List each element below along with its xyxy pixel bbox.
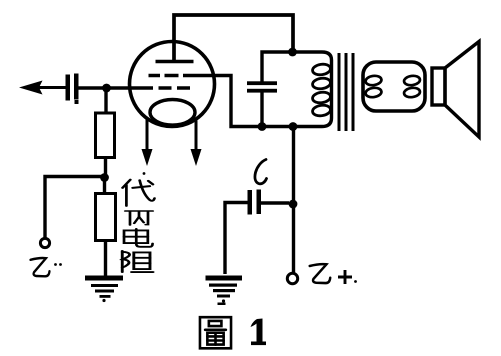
capacitor C3: [225, 190, 289, 275]
label 阻: [122, 251, 153, 272]
input arrow: [19, 81, 66, 95]
wire R1 to bias node: [104, 158, 107, 175]
triode V1 envelope: [130, 42, 215, 127]
resistor R1: [96, 113, 115, 158]
wire B+ vertical: [292, 127, 295, 274]
transformer secondary voice coil: [363, 62, 425, 111]
caption 圖: [200, 317, 231, 348]
caption 1: [251, 319, 267, 346]
ground (C3): [206, 276, 243, 303]
node primary bottom junction: [289, 122, 298, 131]
ground (R2): [85, 276, 123, 303]
wire R2 to ground: [104, 241, 107, 277]
control grid dashes: [159, 86, 191, 90]
anode plate: [156, 60, 194, 64]
node screen bypass junction: [258, 122, 267, 131]
wire plate to transformer top: [174, 15, 293, 62]
wire bias node to R2: [103, 180, 106, 194]
ditto marks: [54, 263, 62, 266]
wire to C- terminal: [45, 177, 102, 239]
label 乙+: [310, 264, 357, 284]
resistor R2: [96, 194, 116, 241]
node top B+ junction: [288, 48, 297, 57]
label 电: [124, 229, 153, 247]
wire to primary bottom junction: [262, 125, 293, 128]
node grid junction: [102, 84, 111, 93]
label 代: [123, 180, 155, 206]
terminal B+: [287, 273, 297, 283]
wire C2 bottom: [260, 92, 263, 126]
speck: [143, 172, 146, 175]
speaker LS: [432, 42, 479, 138]
filament lead arrow left: [142, 120, 153, 167]
caption mark: [218, 303, 226, 306]
cathode: [150, 100, 195, 126]
wire input to grid: [79, 86, 154, 89]
capacitor C2: [247, 81, 277, 92]
filament lead arrow right: [191, 121, 202, 167]
node bias junction: [100, 173, 109, 182]
transformer core: [339, 53, 353, 131]
capacitor C1: [66, 74, 79, 105]
wire junction to R1: [104, 91, 107, 113]
wire screen grid to bypass: [183, 76, 260, 127]
label 乙 (C-): [31, 258, 50, 276]
screen grid dashes: [149, 74, 179, 78]
wire to C2 top: [262, 52, 290, 82]
transformer T1 primary: [293, 52, 332, 127]
label 丙: [125, 211, 153, 225]
label l: [255, 160, 267, 184]
node C3 junction: [289, 200, 298, 209]
terminal C-: [40, 238, 49, 247]
